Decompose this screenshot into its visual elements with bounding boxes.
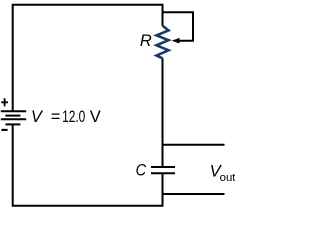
- svg-text:V: V: [90, 108, 101, 126]
- svg-text:12.0: 12.0: [62, 108, 85, 126]
- svg-text:Vout: Vout: [210, 163, 235, 185]
- svg-text:R: R: [140, 32, 152, 50]
- svg-text:C: C: [136, 161, 147, 180]
- svg-text:=: =: [51, 108, 61, 126]
- svg-text:V: V: [31, 108, 44, 126]
